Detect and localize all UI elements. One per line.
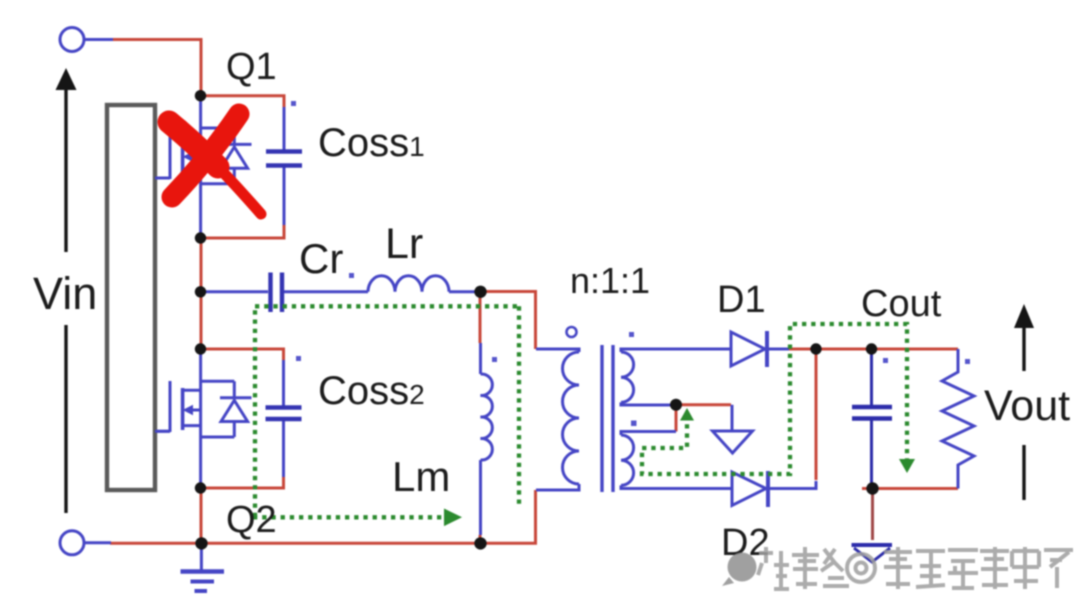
- svg-text:Q1: Q1: [226, 46, 277, 88]
- svg-text:Q2: Q2: [226, 499, 277, 541]
- svg-text:Cout: Cout: [861, 283, 942, 325]
- svg-text:Lr: Lr: [385, 220, 423, 268]
- svg-text:Lm: Lm: [392, 453, 450, 500]
- svg-text:Coss1: Coss1: [318, 121, 425, 165]
- svg-text:n:1:1: n:1:1: [570, 260, 650, 301]
- svg-text:Cr: Cr: [299, 235, 343, 282]
- svg-text:Vin: Vin: [33, 268, 97, 319]
- svg-text:D1: D1: [717, 279, 766, 321]
- svg-text:Vout: Vout: [984, 382, 1070, 430]
- svg-text:Coss2: Coss2: [318, 369, 425, 413]
